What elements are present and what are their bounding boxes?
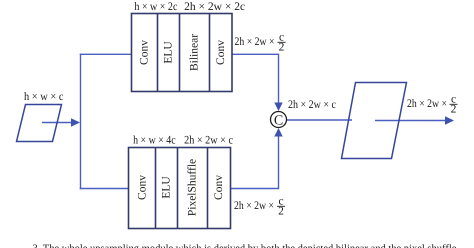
svg-text:Conv: Conv: [137, 175, 149, 200]
svg-text:Conv: Conv: [139, 40, 151, 65]
svg-text:2h × 2w ×: 2h × 2w ×: [407, 98, 447, 110]
svg-text:Bilinear: Bilinear: [189, 34, 201, 71]
svg-text:h × w × c: h × w × c: [24, 91, 64, 103]
svg-text:3. The whole upsampling module: 3. The whole upsampling module which is …: [33, 244, 460, 248]
svg-text:ELU: ELU: [163, 41, 175, 64]
svg-text:2h × 2w ×: 2h × 2w ×: [235, 36, 275, 48]
svg-text:2: 2: [278, 206, 284, 218]
svg-text:h × w × 2c: h × w × 2c: [134, 1, 177, 13]
svg-text:2: 2: [451, 104, 457, 116]
svg-text:ELU: ELU: [161, 176, 173, 199]
svg-text:Conv: Conv: [213, 175, 225, 200]
svg-text:PixelShuffle: PixelShuffle: [187, 159, 199, 216]
svg-text:2: 2: [279, 42, 285, 54]
svg-text:h × w × 4c: h × w × 4c: [133, 135, 176, 147]
svg-text:C: C: [274, 113, 283, 128]
svg-text:2h × 2w × c: 2h × 2w × c: [184, 135, 233, 147]
svg-text:2h × 2w × c: 2h × 2w × c: [288, 99, 336, 111]
svg-text:2h × 2w × 2c: 2h × 2w × 2c: [184, 1, 245, 13]
svg-text:Conv: Conv: [215, 40, 227, 65]
svg-text:2h × 2w ×: 2h × 2w ×: [234, 200, 274, 212]
